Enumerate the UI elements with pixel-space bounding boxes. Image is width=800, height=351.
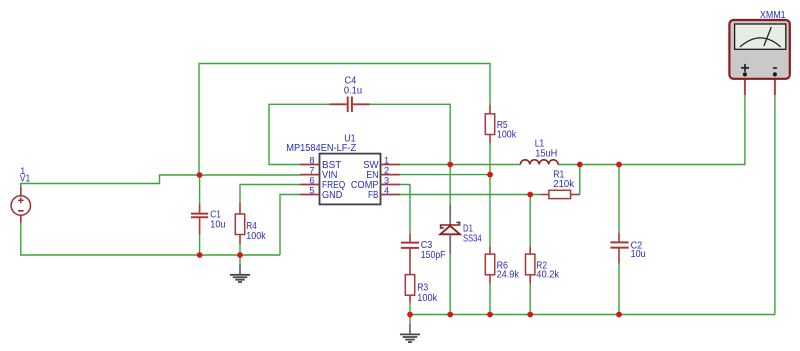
multimeter XMM1 [729, 20, 789, 95]
wire FB pin 4 to R1 left node [399, 194, 540, 196]
svg-text:SS34: SS34 [463, 233, 482, 244]
svg-text:1: 1 [384, 156, 389, 166]
U1 pin 7 stub [300, 174, 319, 176]
wire R6 bottom to ground rail [489, 284, 491, 315]
wire GND pin 5 to left rail [280, 195, 301, 256]
resistor R6 [485, 246, 494, 284]
diode D1 SS34 [440, 205, 460, 254]
svg-text:40.2k: 40.2k [536, 270, 560, 281]
svg-text:V1: V1 [20, 174, 31, 185]
capacitor C4 [330, 97, 370, 113]
svg-text:XMM1: XMM1 [760, 10, 786, 21]
U1 pin 3 stub [381, 184, 400, 186]
wire COMP pin 3 to C3 branch [399, 185, 410, 234]
U1 pin 1 stub [381, 164, 400, 166]
svg-text:10u: 10u [631, 249, 646, 260]
node R6 ground junction [487, 312, 493, 318]
resistor R2 [526, 246, 535, 284]
node SW / C2 junction [616, 162, 622, 168]
wire EN node down to R6 top [489, 175, 491, 247]
wire R2 bottom to ground rail [529, 284, 531, 315]
svg-text:100k: 100k [497, 130, 517, 141]
svg-text:7: 7 [309, 166, 314, 176]
node SW / R1 junction [577, 162, 583, 168]
wire V1 plus to VIN pin 7 [21, 175, 301, 187]
svg-text:5: 5 [309, 186, 314, 196]
node EN / R5 / R6 junction [487, 172, 493, 178]
svg-text:GND: GND [322, 189, 343, 201]
capacitor C2 [610, 233, 628, 264]
ground symbol under R4 [230, 255, 250, 282]
wire D1 anode down to ground rail [449, 254, 451, 315]
svg-text:0.1u: 0.1u [344, 86, 362, 97]
svg-text:15uH: 15uH [535, 148, 557, 159]
node R4 ground junction [237, 252, 243, 258]
wire C1 branch from VIN node [199, 175, 201, 204]
wire R4 bottom to left ground rail [239, 244, 241, 255]
inductor L1 [520, 160, 558, 165]
node FB / R1 / R2 junction [527, 192, 533, 198]
node VIN junction [197, 172, 203, 178]
wire R3 bottom to ground rail [409, 303, 411, 315]
svg-text:MP1584EN-LF-Z: MP1584EN-LF-Z [286, 143, 356, 154]
wire SW node down to D1 cathode [449, 165, 451, 206]
resistor R1 [540, 190, 579, 198]
resistor R4 [235, 203, 244, 244]
svg-text:24.9k: 24.9k [497, 270, 520, 281]
svg-text:FB: FB [368, 189, 379, 201]
wire C4 right to SW node [370, 104, 451, 164]
svg-text:100k: 100k [246, 231, 266, 242]
svg-text:150pF: 150pF [421, 250, 446, 261]
svg-text:3: 3 [384, 176, 389, 186]
wire FB node down to R2 top [529, 195, 531, 247]
ground symbol under R3 [400, 315, 420, 343]
op-amp U1 body MP1584EN-LF-Z [320, 154, 381, 205]
node C1 bottom junction [197, 252, 203, 258]
node D1 ground junction [447, 312, 453, 318]
U1 pin 5 stub [300, 194, 319, 196]
wire right ground rail [410, 314, 775, 316]
capacitor C1 [191, 204, 208, 235]
svg-text:4: 4 [384, 186, 389, 196]
svg-text:210k: 210k [553, 179, 575, 190]
wire C2 bottom to ground rail [618, 264, 620, 315]
svg-text:100k: 100k [417, 293, 438, 304]
capacitor C3 [401, 234, 419, 275]
svg-text:2: 2 [384, 166, 389, 176]
wire EN pin 2 to R5/R6 node [399, 174, 490, 176]
node C2 ground junction [616, 312, 622, 318]
resistor R5 [485, 105, 494, 144]
voltage source V1 [11, 187, 30, 224]
U1 pin 8 stub [300, 164, 319, 166]
U1 pin 4 stub [381, 194, 400, 196]
U1 pin 2 stub [381, 174, 400, 176]
wire left ground rail [21, 223, 280, 255]
resistor R3 [405, 275, 414, 303]
wire L1 to XMM1 plus lead [558, 95, 745, 164]
wire C2 top from SW row [618, 165, 620, 234]
svg-text:8: 8 [309, 156, 314, 166]
wire C1 bottom to left ground rail [199, 235, 201, 256]
node R3 ground junction [407, 312, 413, 318]
U1 pin 6 stub [300, 184, 319, 186]
node R2 ground junction [527, 312, 533, 318]
wire R5 bottom to EN node [489, 144, 491, 175]
node SW / C4 / D1 junction [447, 162, 453, 168]
wire FREQ pin 6 to R4 top [240, 185, 301, 204]
wire top loop VIN rail to R5 top [199, 64, 490, 176]
wire R1 right up to SW row [579, 165, 581, 195]
wire SW pin 1 to L1 [399, 164, 520, 166]
svg-text:10u: 10u [210, 220, 225, 231]
svg-text:6: 6 [309, 176, 314, 186]
wire XMM1 minus lead down to ground rail [774, 95, 776, 314]
wire C4 loop left to BST pin 8 [269, 104, 330, 164]
